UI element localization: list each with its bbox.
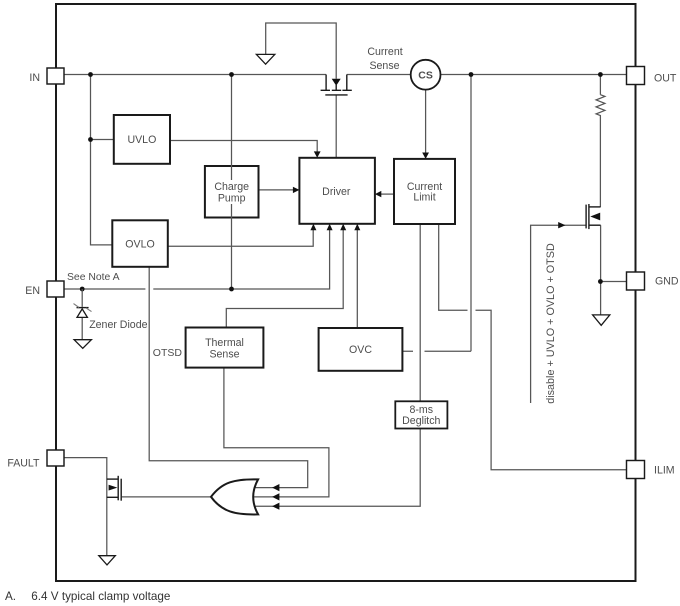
wire: OVLO output to Driver bottom xyxy=(168,230,313,247)
arrow: EN into Driver bottom xyxy=(327,224,333,230)
wire: main IN-OUT rail xyxy=(64,74,627,76)
svg-text:Sense: Sense xyxy=(209,349,239,361)
wire: Thermal Sense output to OR gate middle input xyxy=(224,368,329,497)
FAULT FET Q3 gate bar xyxy=(120,479,122,501)
discharge FET Q2 gate bar xyxy=(585,205,587,229)
pin FAULT xyxy=(47,450,64,466)
arrow: Charge Pump into Driver left xyxy=(293,187,300,193)
svg-text:Deglitch: Deglitch xyxy=(402,415,440,427)
wire: Charge Pump output to Driver xyxy=(259,189,294,191)
OVC block xyxy=(319,328,403,371)
discharge FET Q2 source stub xyxy=(589,224,601,226)
wire: resistor top lead xyxy=(599,75,601,95)
junction dot UVLO tap xyxy=(88,137,93,142)
pass FET Q1 left stub xyxy=(325,75,327,91)
arrow: OVC into Driver bottom xyxy=(354,224,360,230)
zener diode anode triangle xyxy=(77,309,87,318)
wire: charge-pump loop to top ground xyxy=(266,23,337,79)
arrow: CS into Current Limit top xyxy=(422,153,429,159)
svg-text:disable + UVLO + OVLO + OTSD: disable + UVLO + OVLO + OTSD xyxy=(545,243,557,404)
arrow: thermal into Driver bottom xyxy=(340,224,346,230)
wire: OR gate output to FAULT FET gate xyxy=(122,496,212,498)
OR gate U2 xyxy=(211,479,258,514)
pin OUT xyxy=(627,67,645,85)
svg-text:See Note A: See Note A xyxy=(67,272,120,283)
zener diode cathode bar xyxy=(77,307,89,309)
junction dot OUT-OVC xyxy=(469,72,474,77)
ground symbol (FAULT FET) xyxy=(99,556,116,565)
junction dot EN-zener xyxy=(80,287,85,292)
junction dot EN-driver xyxy=(229,287,234,292)
FAULT FET Q3 source stub xyxy=(107,496,118,498)
arrow: OR gate top input xyxy=(272,484,279,491)
Charge Pump block xyxy=(205,166,259,218)
Thermal Sense block xyxy=(186,328,264,368)
junction dot GND-FET xyxy=(598,279,603,284)
svg-text:OVC: OVC xyxy=(349,344,372,356)
UVLO block xyxy=(114,115,170,164)
arrow: UVLO into Driver top xyxy=(314,151,321,157)
resistor R (output pulldown) xyxy=(596,95,605,207)
FAULT FET Q3 body arrow xyxy=(109,485,118,491)
ground symbol (zener) xyxy=(74,340,91,349)
wire: pass FET gate from Driver xyxy=(335,95,337,158)
svg-text:Pump: Pump xyxy=(218,193,246,205)
zener diode lead from EN xyxy=(81,289,83,340)
wire: OUT sense down to OVC xyxy=(402,75,471,352)
svg-text:6.4 V typical clamp voltage: 6.4 V typical clamp voltage xyxy=(31,590,170,603)
arrow: OR gate bottom input xyxy=(272,503,279,510)
pass FET Q1 gate bar xyxy=(325,94,347,96)
svg-text:GND: GND xyxy=(655,276,679,288)
svg-text:OVLO: OVLO xyxy=(125,239,154,251)
wire: IN to EN vertical through charge pump (upper) xyxy=(231,75,233,181)
pass FET Q1 body arrow xyxy=(332,79,341,86)
arrow: disable signal into discharge FET gate xyxy=(558,222,565,228)
Driver block U1 xyxy=(299,158,375,224)
svg-text:Sense: Sense xyxy=(369,60,399,72)
junction dot OUT-resistor xyxy=(598,72,603,77)
svg-text:Current: Current xyxy=(367,46,402,58)
wire: UVLO output to Driver top xyxy=(170,141,317,153)
FAULT FET Q3 channel bar xyxy=(117,476,119,501)
zener diode wing ticks xyxy=(74,304,92,312)
arrow: OVLO into Driver bottom xyxy=(310,224,316,230)
wire: CS to Current Limit xyxy=(425,90,427,153)
svg-text:Driver: Driver xyxy=(322,186,351,198)
wire: IN to UVLO/OVLO vertical branch xyxy=(91,75,114,245)
wire: Current Limit to ILIM pin xyxy=(439,224,627,470)
svg-text:Thermal: Thermal xyxy=(205,337,244,349)
arrow: OR gate middle input xyxy=(272,493,279,500)
svg-text:A.: A. xyxy=(5,590,16,603)
wire: IN to EN vertical through charge pump (lower) xyxy=(231,204,233,289)
wire: EN line xyxy=(64,230,330,290)
pin IN xyxy=(47,68,64,84)
ground symbol (top, charge pump loop) xyxy=(256,54,274,64)
FAULT FET Q3 drain stub xyxy=(107,478,118,480)
wire: discharge FET gate line (disable signal) xyxy=(531,225,586,403)
wire: Thermal Sense top feed to Driver bottom xyxy=(226,230,343,328)
pass FET Q1 channel segments xyxy=(321,89,352,91)
ground symbol (discharge FET) xyxy=(593,315,610,325)
svg-text:Zener Diode: Zener Diode xyxy=(89,319,147,331)
8-ms Deglitch block xyxy=(395,401,447,428)
svg-text:FAULT: FAULT xyxy=(7,458,40,470)
svg-text:UVLO: UVLO xyxy=(127,134,156,146)
svg-text:Limit: Limit xyxy=(413,191,435,203)
Current Limit block xyxy=(394,159,455,224)
OVLO block xyxy=(112,220,168,266)
wire: discharge FET source to ground and GND pin xyxy=(601,225,627,315)
svg-text:CS: CS xyxy=(418,70,433,82)
wire: OVC top feed to Driver bottom xyxy=(356,230,358,329)
discharge FET Q2 body arrow xyxy=(590,213,600,221)
pass FET Q1 right stub xyxy=(346,75,348,91)
wire: FAULT pin to FET xyxy=(64,458,107,556)
svg-text:IN: IN xyxy=(29,72,40,84)
junction dot IN-chargepump xyxy=(229,72,234,77)
junction dot IN-branch xyxy=(88,72,93,77)
discharge FET Q2 drain stub xyxy=(589,206,601,208)
svg-text:EN: EN xyxy=(25,285,40,297)
pin GND xyxy=(627,272,645,290)
svg-text:8-ms: 8-ms xyxy=(410,404,434,416)
wire: OVLO fault line to OR gate top input xyxy=(149,267,308,488)
pin EN xyxy=(47,281,64,297)
wire: Current Limit to 8-ms Deglitch to OR gate xyxy=(255,224,420,506)
svg-text:OUT: OUT xyxy=(654,73,677,85)
discharge FET Q2 channel bar xyxy=(588,204,590,229)
CS current sense circle xyxy=(411,60,441,90)
svg-text:ILIM: ILIM xyxy=(654,465,675,477)
pin ILIM xyxy=(627,461,645,479)
svg-text:Charge: Charge xyxy=(214,181,249,193)
pass FET Q1 arrow stem xyxy=(335,85,337,90)
arrow: Current Limit into Driver right xyxy=(375,191,381,197)
svg-text:OTSD: OTSD xyxy=(153,347,183,359)
wire: Current Limit output to Driver xyxy=(381,193,395,195)
